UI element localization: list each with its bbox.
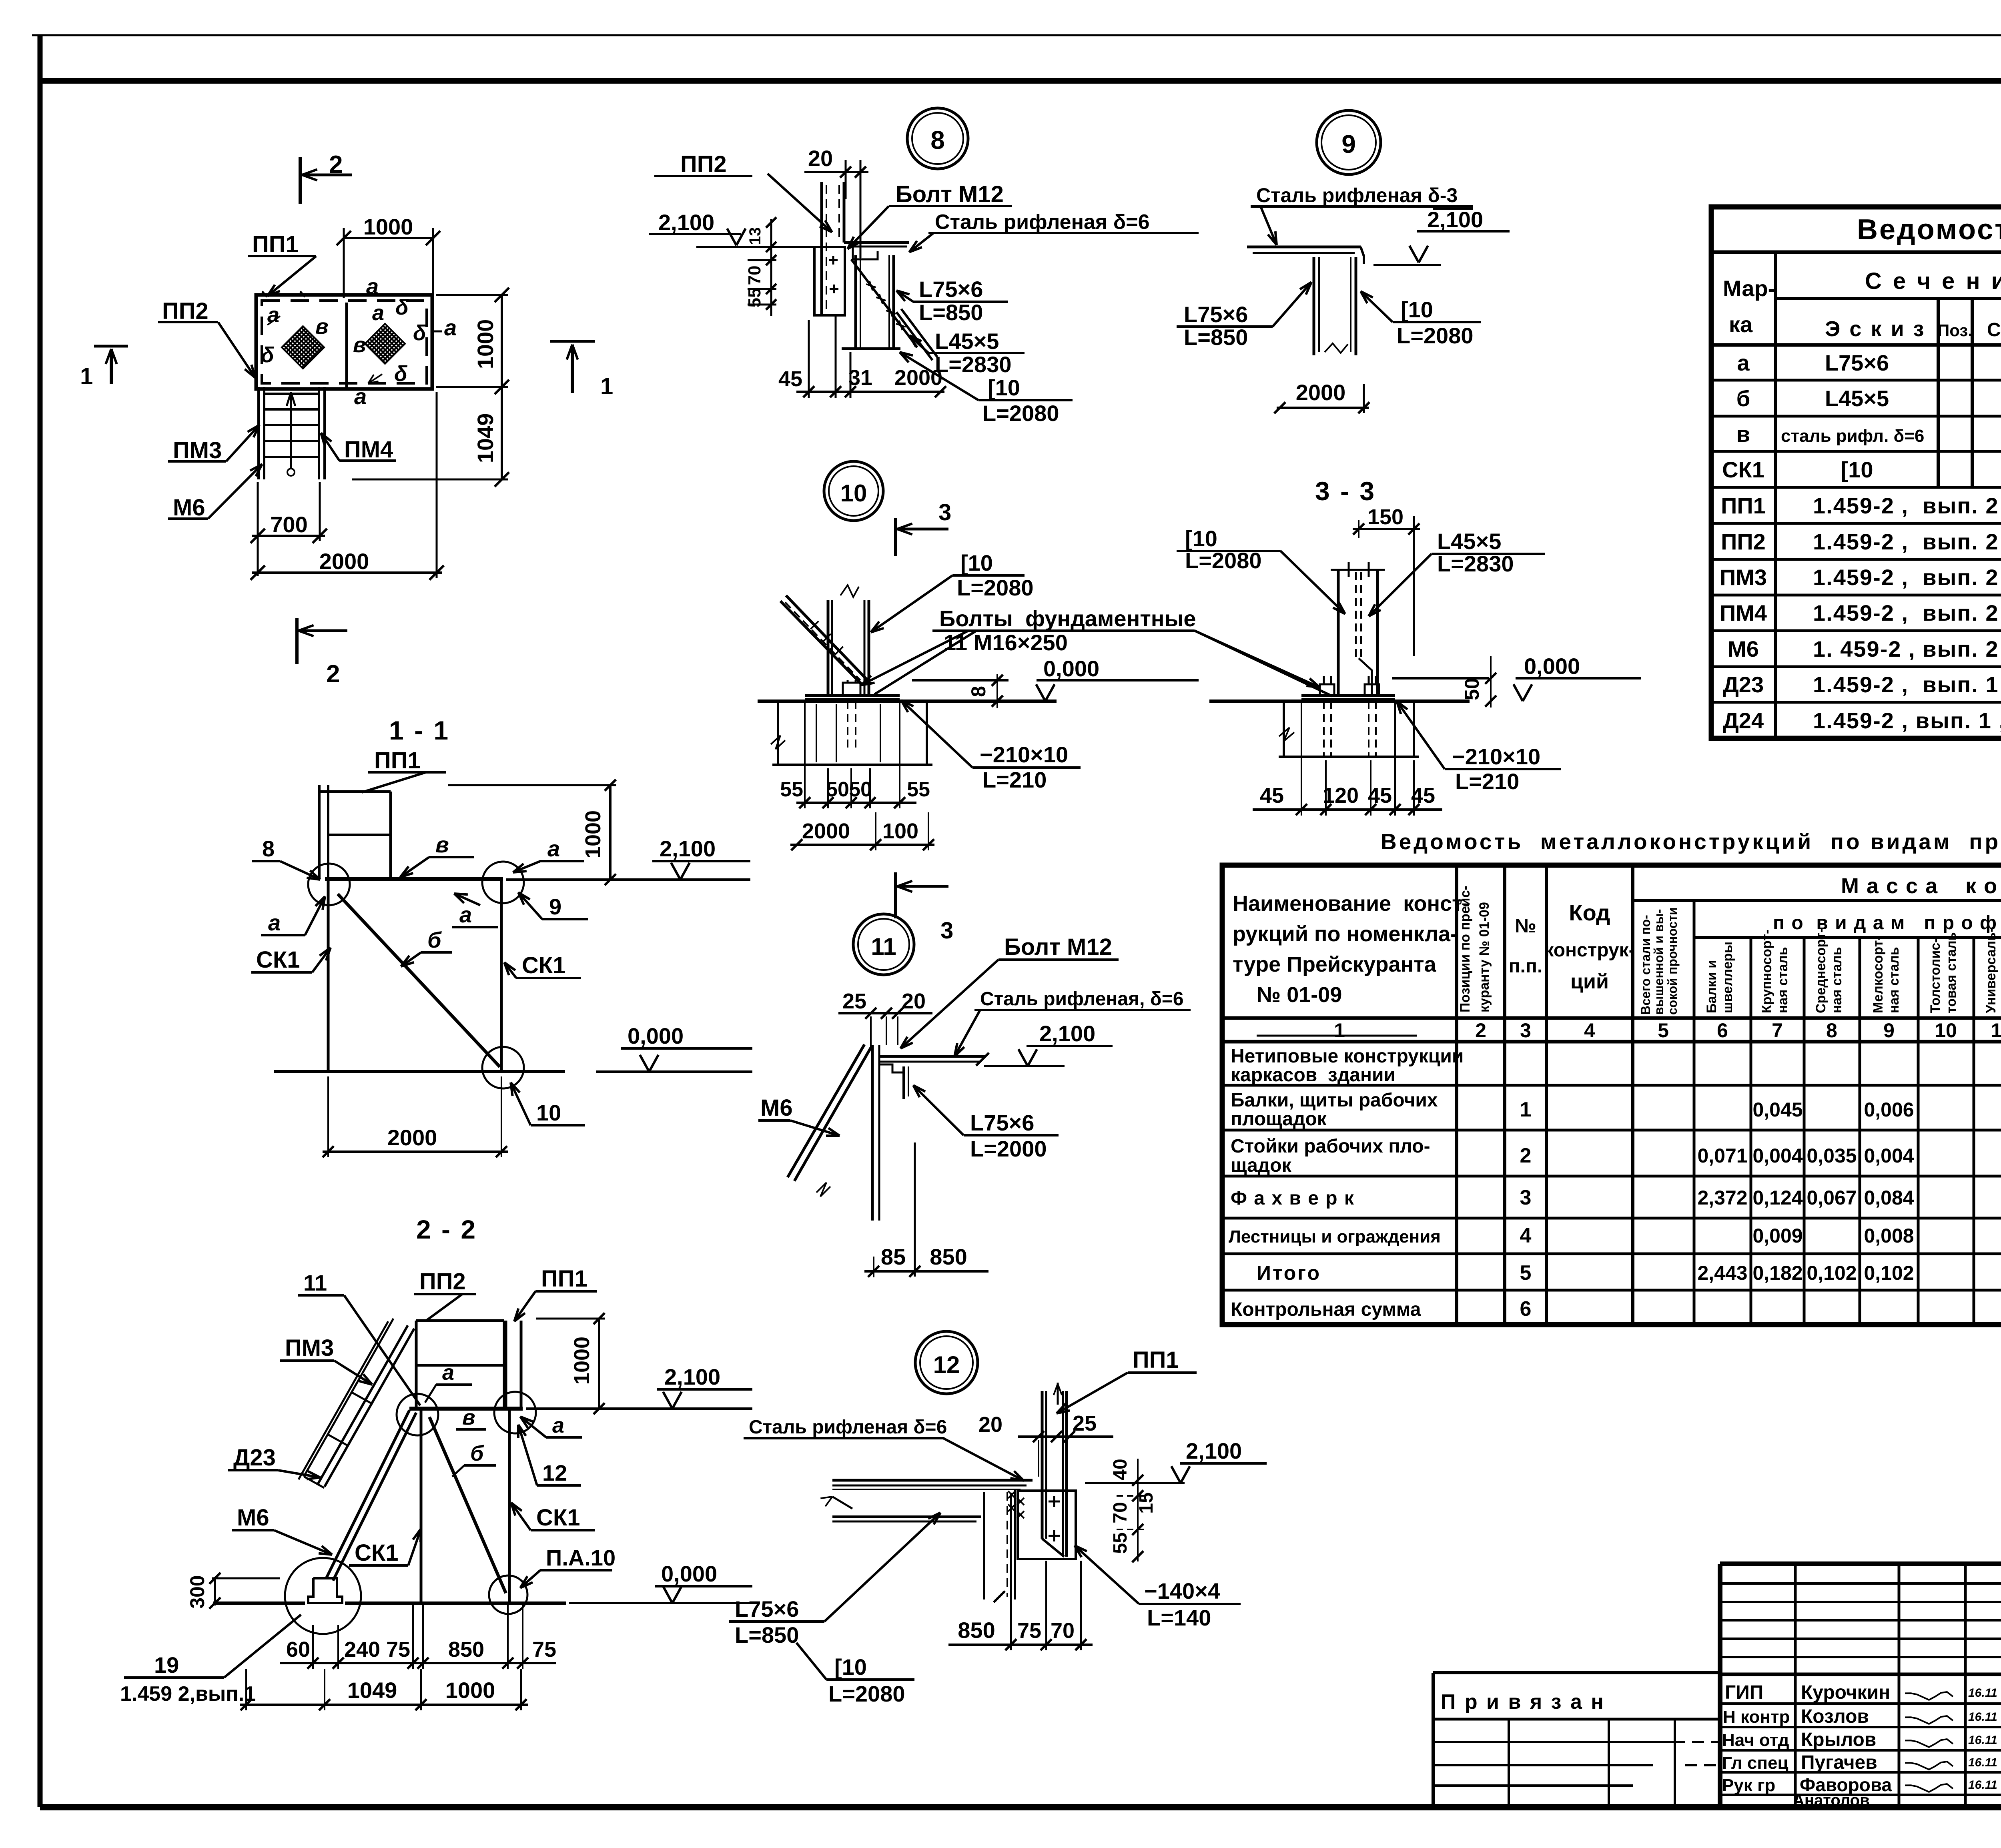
svg-text:1.459-2 , вып. 2 , лист 75: 1.459-2 , вып. 2 , лист 75 xyxy=(1813,493,2001,518)
sheet frame: top thick border line xyxy=(38,78,2001,84)
plan view: arrow to mark a inside left panel xyxy=(267,316,280,325)
svg-text:L75×6: L75×6 xyxy=(970,1110,1034,1135)
svg-text:1.459-2 , вып. 2 , лист 55: 1.459-2 , вып. 2 , лист 55 xyxy=(1813,600,2001,625)
detail 8: weld x-ticks along diagonal xyxy=(866,284,876,287)
svg-text:Болт М12: Болт М12 xyxy=(1004,934,1112,960)
svg-text:13: 13 xyxy=(746,227,764,245)
detail 10: section marker 3 (bottom) xyxy=(894,872,897,918)
section 2-2: bottom dims 1049 1000 xyxy=(240,1704,528,1706)
svg-text:[10: [10 xyxy=(834,1654,867,1680)
svg-text:70: 70 xyxy=(1051,1619,1075,1643)
svg-text:700: 700 xyxy=(270,512,307,537)
svg-text:Курочкин: Курочкин xyxy=(1801,1682,1890,1703)
section 2-2: stair rung ticks xyxy=(352,1393,372,1404)
svg-text:ций: ций xyxy=(1570,970,1609,993)
plan view: mark a (right) with tick xyxy=(434,331,442,333)
detail 12: weld x-marks on gusset xyxy=(1008,1491,1015,1498)
section 2-2: shoe detail circle xyxy=(285,1558,361,1634)
plan view: section marker 1 (left) xyxy=(94,345,128,348)
svg-text:50: 50 xyxy=(826,778,849,801)
section 1-1: diagonal б xyxy=(338,894,500,1067)
detail 11: bubble xyxy=(853,914,914,975)
svg-text:[10: [10 xyxy=(1841,457,1873,482)
detail 12: column ПП1 double lines xyxy=(1041,1391,1044,1539)
svg-text:Н контр: Н контр xyxy=(1723,1707,1790,1727)
svg-text:10: 10 xyxy=(536,1100,561,1125)
section 1-1: right post CK1 xyxy=(500,879,503,1072)
svg-text:7: 7 xyxy=(1772,1019,1783,1042)
svg-text:Балки, щиты рабочих: Балки, щиты рабочих xyxy=(1231,1090,1438,1111)
svg-text:L=2080: L=2080 xyxy=(982,401,1059,426)
plan view: hatched opening in panel ПП1 xyxy=(365,324,405,364)
section 2-2: dim 1000 (right) xyxy=(598,1319,600,1409)
section 2-2: ground line xyxy=(213,1601,305,1605)
section 1-1: dim 2000 xyxy=(323,1150,508,1153)
section 2-2: diagonal brace М6 xyxy=(326,1410,409,1578)
svg-text:Сталь рифленая δ=6: Сталь рифленая δ=6 xyxy=(935,210,1150,234)
svg-text:б: б xyxy=(470,1441,484,1465)
section 3-3: ground line xyxy=(1209,700,1470,703)
svg-text:СК1: СК1 xyxy=(522,952,566,978)
detail 10: section marker 3 (top) xyxy=(894,518,897,556)
svg-text:СК1: СК1 xyxy=(355,1540,399,1566)
detail 10: column flanges xyxy=(827,600,830,696)
svg-text:М6: М6 xyxy=(760,1095,793,1121)
svg-text:55: 55 xyxy=(1110,1532,1131,1553)
svg-text:850: 850 xyxy=(448,1638,484,1662)
svg-text:Болт М12: Болт М12 xyxy=(896,181,1004,207)
svg-text:−210×10: −210×10 xyxy=(980,742,1068,767)
plan view: dim 1000 (top) xyxy=(344,237,433,239)
svg-text:швеллеры: швеллеры xyxy=(1720,942,1735,1013)
svg-text:55: 55 xyxy=(907,778,930,801)
svg-text:ПМ3: ПМ3 xyxy=(173,437,222,463)
detail 10: anchor bolt with nut xyxy=(843,683,860,696)
detail 12: break arrow at left of beam xyxy=(832,1497,852,1509)
detail 8: column hidden lines xyxy=(826,185,827,312)
plan view: dim 2000 xyxy=(252,571,442,574)
detail 11: bottom dims 85 850 xyxy=(864,1270,988,1273)
svg-text:6: 6 xyxy=(1520,1297,1532,1321)
svg-text:а: а xyxy=(1737,350,1750,375)
svg-text:L=2830: L=2830 xyxy=(935,352,1012,377)
svg-text:19: 19 xyxy=(154,1652,179,1678)
title block: signatures (squiggles) xyxy=(1905,1692,1953,1700)
svg-text:8: 8 xyxy=(967,686,990,697)
svg-text:5: 5 xyxy=(1520,1261,1532,1285)
plan view: joint line between panels xyxy=(345,303,348,390)
svg-text:1.459-2 , вып. 1 , лист 81: 1.459-2 , вып. 1 , лист 81 xyxy=(1813,708,2001,733)
svg-text:0,000: 0,000 xyxy=(661,1561,717,1586)
plan view: section marker 2 (top) xyxy=(299,157,302,204)
section 3-3: column channel xyxy=(1337,570,1340,697)
detail 10: level line and dim 8 xyxy=(912,679,1009,681)
svg-text:1.459-2 , вып. 1 , лист 81: 1.459-2 , вып. 1 , лист 81 xyxy=(1813,672,2001,697)
section 2-2: bottom dims 60 240 75 850 75 xyxy=(280,1662,556,1664)
svg-text:2,100: 2,100 xyxy=(664,1364,720,1389)
svg-text:850: 850 xyxy=(958,1618,995,1643)
svg-text:в: в xyxy=(462,1405,475,1429)
svg-text:Ведомость металлоконструкций: Ведомость металлоконструкций по видам пр… xyxy=(1381,829,2001,854)
svg-text:300: 300 xyxy=(186,1575,209,1608)
section 2-2: middle post СК1 xyxy=(420,1409,423,1603)
svg-text:Позиции по прейс-: Позиции по прейс- xyxy=(1458,886,1473,1012)
svg-text:1: 1 xyxy=(1520,1098,1532,1121)
plan view: stairs - right rail xyxy=(318,387,320,479)
svg-text:а: а xyxy=(442,1361,454,1385)
svg-text:−140×4: −140×4 xyxy=(1144,1578,1220,1603)
svg-text:1000: 1000 xyxy=(570,1337,594,1385)
svg-text:в: в xyxy=(435,832,449,857)
svg-text:а: а xyxy=(444,315,457,340)
svg-text:туре Прейскуранта: туре Прейскуранта xyxy=(1233,952,1437,976)
table 1: vertical rules xyxy=(1774,252,1777,738)
svg-text:8: 8 xyxy=(262,836,275,861)
svg-text:50: 50 xyxy=(849,778,872,801)
svg-text:55: 55 xyxy=(780,778,803,801)
svg-text:П.А.10: П.А.10 xyxy=(546,1545,616,1570)
svg-text:а: а xyxy=(366,274,379,299)
svg-text:П р и в я з а н: П р и в я з а н xyxy=(1441,1690,1605,1714)
svg-text:Среднесорт-: Среднесорт- xyxy=(1813,928,1829,1013)
svg-text:2: 2 xyxy=(1520,1144,1532,1167)
svg-text:11: 11 xyxy=(1991,1019,2001,1042)
detail 10: diagonal angle L45x5 xyxy=(786,595,868,680)
svg-text:3: 3 xyxy=(938,499,951,525)
svg-text:№: № xyxy=(1515,916,1536,937)
svg-text:М6: М6 xyxy=(173,495,205,521)
svg-text:240: 240 xyxy=(344,1638,380,1662)
svg-text:ПП1: ПП1 xyxy=(1133,1347,1179,1373)
svg-text:L=210: L=210 xyxy=(1455,769,1519,794)
svg-text:8: 8 xyxy=(930,126,945,154)
svg-text:Толстолис-: Толстолис- xyxy=(1928,938,1943,1013)
svg-text:1000: 1000 xyxy=(473,319,498,369)
svg-text:0,006: 0,006 xyxy=(1864,1098,1914,1121)
svg-text:2: 2 xyxy=(1475,1019,1486,1042)
svg-text:16.11: 16.11 xyxy=(1968,1710,1997,1724)
svg-text:L75×6: L75×6 xyxy=(735,1596,799,1622)
svg-text:85: 85 xyxy=(881,1244,906,1269)
svg-text:L=2080: L=2080 xyxy=(828,1681,905,1706)
svg-text:120: 120 xyxy=(1323,784,1359,808)
table 2: outer border xyxy=(1222,865,2001,1325)
svg-text:ная сталь: ная сталь xyxy=(1775,947,1790,1013)
svg-text:L75×6: L75×6 xyxy=(919,277,983,302)
table 2: vertical rules xyxy=(1455,865,1458,1325)
detail 12: floor plate (left) xyxy=(832,1479,1033,1482)
svg-text:Всего стали по-: Всего стали по- xyxy=(1638,915,1653,1015)
svg-text:каркасов здании: каркасов здании xyxy=(1231,1064,1395,1086)
svg-text:2,372: 2,372 xyxy=(1697,1187,1747,1209)
section 3-3: foundation break mark xyxy=(1279,728,1294,741)
detail 11: angle L75x6 leg below plate xyxy=(902,1066,905,1099)
section 3-3: angle hidden lines and jog xyxy=(1355,572,1357,658)
section 3-3: bolt shafts hidden xyxy=(1323,701,1325,756)
svg-text:20: 20 xyxy=(902,989,926,1013)
detail 12: vertical angle L75x6 xyxy=(983,1492,985,1599)
svg-text:4: 4 xyxy=(1520,1224,1532,1247)
svg-text:Мелкосорт-: Мелкосорт- xyxy=(1871,936,1886,1013)
section 1-1: platform beam (в) xyxy=(325,877,503,881)
detail 10: base plate -210x10 xyxy=(805,694,900,697)
table 2: horizontal rules xyxy=(1633,899,2001,902)
svg-text:0,067: 0,067 xyxy=(1807,1187,1857,1209)
svg-text:щадок: щадок xyxy=(1231,1155,1292,1176)
svg-text:60: 60 xyxy=(286,1638,310,1662)
svg-text:0,084: 0,084 xyxy=(1864,1187,1914,1209)
svg-text:75: 75 xyxy=(386,1638,410,1662)
detail 9: floor plate xyxy=(1247,246,1361,249)
svg-text:10: 10 xyxy=(1935,1019,1957,1042)
svg-text:2: 2 xyxy=(329,151,343,178)
svg-text:№ 01-09: № 01-09 xyxy=(1257,983,1342,1007)
title block: staff row lines xyxy=(1720,1702,2001,1705)
svg-text:2,100: 2,100 xyxy=(658,210,714,235)
section 3-3: bottom dims 45 120 45 45 xyxy=(1253,808,1442,811)
svg-text:вышенной и вы-: вышенной и вы- xyxy=(1652,909,1666,1015)
svg-text:−210×10: −210×10 xyxy=(1452,744,1540,769)
svg-text:2: 2 xyxy=(326,660,340,688)
svg-text:L=850: L=850 xyxy=(735,1622,799,1648)
detail 12: column bottom diagonal cut xyxy=(1042,1539,1064,1557)
svg-text:25: 25 xyxy=(1073,1411,1097,1435)
svg-text:[10: [10 xyxy=(988,375,1020,400)
section 3-3: right extension line xyxy=(1413,516,1415,656)
svg-text:1 - 1: 1 - 1 xyxy=(389,716,450,745)
svg-text:10: 10 xyxy=(840,480,867,507)
svg-text:а: а xyxy=(552,1413,564,1437)
detail 8: left dim stack lines xyxy=(770,219,772,316)
svg-text:16.11: 16.11 xyxy=(1968,1778,1997,1792)
svg-text:2,100: 2,100 xyxy=(1039,1021,1095,1046)
svg-text:Контрольная сумма: Контрольная сумма xyxy=(1231,1299,1421,1320)
svg-text:Крупносорт-: Крупносорт- xyxy=(1759,930,1774,1013)
title block: small grid horizontals xyxy=(1720,1582,2001,1585)
svg-text:б: б xyxy=(427,927,442,952)
svg-text:12: 12 xyxy=(933,1351,960,1378)
svg-text:L=2830: L=2830 xyxy=(1437,551,1514,576)
detail 10: ground line 0.000 xyxy=(758,700,1057,703)
svg-text:Итого: Итого xyxy=(1257,1262,1321,1284)
svg-text:Пугачев: Пугачев xyxy=(1801,1752,1877,1773)
svg-text:δ: δ xyxy=(413,321,427,345)
section 2-2: diagonal б xyxy=(429,1417,506,1593)
svg-text:L75×6: L75×6 xyxy=(1184,302,1248,327)
svg-text:6: 6 xyxy=(1717,1019,1728,1042)
svg-text:2,100: 2,100 xyxy=(1427,207,1483,232)
svg-text:3: 3 xyxy=(1520,1186,1532,1209)
svg-text:3: 3 xyxy=(1520,1019,1531,1042)
table 1: horizontal rules xyxy=(1711,251,2001,254)
svg-text:1000: 1000 xyxy=(581,810,605,858)
привязан table: column rules xyxy=(1508,1719,1510,1807)
svg-text:L45×5: L45×5 xyxy=(935,329,999,354)
svg-text:[10: [10 xyxy=(1185,526,1217,551)
section 2-2: base shoe М6 xyxy=(308,1578,342,1603)
section 1-1: ground line xyxy=(274,1070,565,1073)
detail 8: diagonal brace L45x5 behind post xyxy=(851,259,917,347)
svg-text:2000: 2000 xyxy=(387,1125,437,1150)
svg-text:20: 20 xyxy=(808,146,833,171)
sheet frame: left border xyxy=(38,35,43,1807)
svg-text:0,102: 0,102 xyxy=(1864,1262,1914,1284)
svg-text:Ведомость элементов: Ведомость элементов xyxy=(1857,214,2001,246)
svg-text:а: а xyxy=(354,384,367,409)
detail 8: bolts in gusset (+ marks) xyxy=(829,259,838,261)
svg-text:Наименование конст-: Наименование конст- xyxy=(1233,892,1470,916)
section 3-3: column top ticks xyxy=(1331,569,1385,571)
svg-text:Крылов: Крылов xyxy=(1801,1729,1876,1750)
svg-text:0,000: 0,000 xyxy=(1524,653,1580,679)
svg-text:1000: 1000 xyxy=(363,214,413,239)
detail 8: bent support angle under plate xyxy=(853,247,878,259)
detail 11: bracket top angle piece xyxy=(879,1064,904,1072)
svg-text:рукций по номенкла-: рукций по номенкла- xyxy=(1233,922,1458,946)
plan view: stairs rungs xyxy=(264,393,319,395)
svg-text:L45×5: L45×5 xyxy=(1825,386,1889,411)
svg-text:СК1: СК1 xyxy=(536,1505,580,1531)
svg-text:в: в xyxy=(315,315,329,339)
svg-text:конструк-: конструк- xyxy=(1544,940,1635,961)
section 1-1: node circle 9 (top right) xyxy=(482,862,524,903)
detail 12: column top arrow tick xyxy=(1057,1383,1059,1405)
svg-text:М6: М6 xyxy=(237,1505,269,1531)
plan view: section marker 1 (right) xyxy=(550,340,595,343)
detail 12: beam lines under plate xyxy=(832,1515,981,1518)
svg-text:25: 25 xyxy=(842,989,866,1013)
section 1-1: left post CK1 xyxy=(327,879,330,1072)
section 3-3: foundation outline xyxy=(1283,701,1285,757)
svg-text:1.459 2,вып.1: 1.459 2,вып.1 xyxy=(120,1682,256,1706)
svg-text:4: 4 xyxy=(1584,1019,1595,1042)
svg-text:70: 70 xyxy=(745,266,764,285)
svg-text:0,004: 0,004 xyxy=(1752,1144,1803,1167)
plan view: hatched opening in panel ПП2 xyxy=(282,326,324,369)
detail 8: gusset plate -70x4 xyxy=(814,247,845,315)
svg-text:Анатолов: Анатолов xyxy=(1793,1792,1870,1809)
detail 11: floor plate xyxy=(879,1055,986,1058)
svg-text:Сталь рифленая, δ=6: Сталь рифленая, δ=6 xyxy=(980,988,1184,1010)
section 1-1: node circle 10 (bottom right) xyxy=(482,1047,524,1088)
detail 11: break mark on diagonal xyxy=(816,1183,830,1197)
svg-text:75: 75 xyxy=(1017,1619,1041,1643)
table 1: outer border xyxy=(1711,207,2001,738)
svg-text:0,000: 0,000 xyxy=(628,1023,684,1048)
plan view: dim 1049 (right) xyxy=(501,387,503,479)
plan view: platform outline (panels) xyxy=(256,295,432,389)
svg-text:70: 70 xyxy=(1110,1502,1131,1523)
plan view: dim 1000 (right) xyxy=(501,295,503,387)
plan view: leader to δ bottom right xyxy=(368,374,382,383)
svg-text:75: 75 xyxy=(532,1638,556,1662)
svg-text:3 - 3: 3 - 3 xyxy=(1315,476,1376,506)
detail 8: bottom edge line xyxy=(842,347,900,350)
detail 11: long extension line xyxy=(914,1142,916,1277)
detail 10: foundation outline xyxy=(777,701,779,765)
svg-text:1.459-2 , вып. 2 , лист 55: 1.459-2 , вып. 2 , лист 55 xyxy=(1813,565,2001,590)
svg-text:Сталь рифленая δ=6: Сталь рифленая δ=6 xyxy=(749,1417,947,1438)
svg-text:п.п.: п.п. xyxy=(1509,956,1543,977)
detail 10: bolt shafts hidden below xyxy=(847,701,848,752)
svg-text:ПП1: ПП1 xyxy=(541,1266,587,1292)
detail 10: x-marks on diagonal xyxy=(810,621,818,629)
detail 10: bubble xyxy=(824,461,883,521)
svg-text:Козлов: Козлов xyxy=(1801,1706,1869,1727)
detail 10: foundation break mark xyxy=(771,736,785,749)
svg-text:ПП2: ПП2 xyxy=(680,151,727,177)
plan view: stairs centerline with arrow and circle xyxy=(290,394,292,469)
svg-text:2000: 2000 xyxy=(319,549,369,574)
svg-text:9: 9 xyxy=(1883,1019,1895,1042)
привязан table: top line xyxy=(1433,1671,1720,1674)
svg-text:ПП2: ПП2 xyxy=(162,298,209,324)
detail 12: bubble xyxy=(915,1331,978,1394)
title block: outer top border xyxy=(1720,1561,2001,1566)
svg-text:L=850: L=850 xyxy=(919,300,983,325)
detail 10: foundation verticals (bolt lines) xyxy=(816,704,817,762)
svg-text:Балки и: Балки и xyxy=(1704,960,1719,1013)
svg-text:а: а xyxy=(547,836,560,861)
svg-text:Д23: Д23 xyxy=(233,1445,276,1471)
svg-text:площадок: площадок xyxy=(1231,1108,1327,1130)
svg-text:9: 9 xyxy=(549,894,561,919)
svg-text:в: в xyxy=(353,333,366,357)
svg-text:L75×6: L75×6 xyxy=(1825,350,1889,375)
svg-text:в: в xyxy=(1736,421,1750,447)
detail 12: bottom dims 850 75 70 xyxy=(948,1644,1093,1646)
svg-text:16.11: 16.11 xyxy=(1968,1734,1997,1747)
detail 9: column channel C10 xyxy=(1313,257,1315,355)
svg-text:Д23: Д23 xyxy=(1723,672,1764,697)
svg-text:2000: 2000 xyxy=(1296,380,1346,405)
svg-text:0,009: 0,009 xyxy=(1752,1225,1803,1247)
svg-text:Поз.: Поз. xyxy=(1937,321,1973,340)
svg-text:11: 11 xyxy=(303,1270,327,1295)
svg-text:а: а xyxy=(372,301,384,325)
plan view: dim 700 xyxy=(252,535,325,537)
svg-text:45: 45 xyxy=(1411,784,1435,808)
plan view: section marker 2 (bottom) xyxy=(295,618,299,664)
detail 8: bottom dims 45 31 2000 xyxy=(796,391,944,393)
svg-text:20: 20 xyxy=(978,1413,1003,1437)
section 3-3: base plate xyxy=(1301,694,1395,697)
svg-text:ная сталь: ная сталь xyxy=(1829,947,1845,1013)
svg-text:Гл спец: Гл спец xyxy=(1722,1753,1788,1773)
svg-text:50: 50 xyxy=(1461,678,1483,700)
svg-text:ка: ка xyxy=(1729,312,1753,337)
svg-text:Универсаль-: Универсаль- xyxy=(1983,928,1999,1013)
svg-text:Состав: Состав xyxy=(1987,319,2001,341)
svg-text:Нач отд: Нач отд xyxy=(1722,1730,1789,1750)
section 2-2: platform beam xyxy=(409,1407,523,1411)
svg-text:5: 5 xyxy=(1658,1019,1669,1042)
svg-text:ная сталь: ная сталь xyxy=(1999,947,2001,1013)
svg-text:Код: Код xyxy=(1569,900,1610,925)
svg-text:0,008: 0,008 xyxy=(1864,1225,1914,1247)
svg-text:55: 55 xyxy=(745,288,764,308)
section 2-2: node circle bottom xyxy=(489,1575,527,1614)
section 1-1: node circle 8 (top left) xyxy=(308,864,350,905)
detail 12: right side dims 40 15 70 55 xyxy=(1137,1459,1139,1561)
detail 8: vertical angle post xyxy=(854,255,857,349)
svg-text:Э с к и з: Э с к и з xyxy=(1825,317,1926,341)
section 3-3: anchor bolts with nuts xyxy=(1320,684,1334,696)
sheet frame: top thin border line xyxy=(32,34,2001,36)
detail 12: bolts + marks on column xyxy=(1049,1501,1060,1503)
svg-text:ПП1: ПП1 xyxy=(252,231,299,257)
section 2-2: column ПП2 outline xyxy=(415,1321,418,1409)
